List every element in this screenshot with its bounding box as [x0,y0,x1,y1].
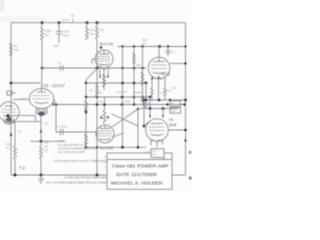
junction dot (86,147.3) [85,146,88,149]
svg-text:1/2 - 12AU7: 1/2 - 12AU7 [43,83,66,88]
svg-text:1W: 1W [99,100,103,104]
svg-text:MICHAEL S. HOLDEN: MICHAEL S. HOLDEN [111,180,163,186]
V5 pin arrows [151,75,160,79]
svg-text:T-2: T-2 [19,166,26,171]
junction dot on B+ rail x=87 [86,21,89,24]
B+ rail (top frame edge) [11,22,186,24]
svg-text:10K: 10K [98,91,103,95]
V4 internal annotations [97,127,110,142]
V6 grid diagonal [144,121,150,126]
annotation C15 C16 [145,151,150,158]
junction dot (122.5,83) [121,82,124,85]
junction dot (122,97) [121,96,124,99]
svg-text:47K: 47K [44,122,49,126]
triode V2 envelope (1/2 12AU7) [29,89,53,109]
value label 40K 1W near screen rail [142,38,147,46]
svg-text:12AU7: 12AU7 [19,98,27,101]
svg-text:0.1 400V: 0.1 400V [56,125,67,129]
junction dot (134,68) [133,67,136,70]
ground symbol below rail [38,175,44,183]
pentode V1 envelope (6AU6 first stage) [92,50,113,68]
svg-text:0.1S: 0.1S [171,86,177,90]
wire x=138 [137,109,139,147]
grid wire from input node y=83 [11,82,40,84]
screen supply wire y=46.5 [118,46,186,48]
resistor R12 (x=97, y 84-96) [96,84,99,96]
svg-text:1.5K: 1.5K [116,91,122,95]
svg-text:CLASS AB1 PP 6V6 AMPLIFIER: CLASS AB1 PP 6V6 AMPLIFIER [65,175,107,179]
svg-text:22K: 22K [136,63,141,67]
junction dot (134,46.5) [133,45,135,47]
value labels under V5 [139,89,172,95]
junction dot (150,108.5) [149,107,152,110]
junction dot (11,83) [10,82,13,85]
svg-text:0.1: 0.1 [124,90,128,94]
V2 base cup [36,107,48,116]
bus wire y=104.5 [56,104,185,106]
junction dot on B+ rail x=59 [58,21,61,24]
junction dot (168,46.5) [167,45,169,47]
svg-text:OUT: OUT [171,109,177,113]
junction dot (185.5,140.5) [184,139,186,141]
output tube V5 envelope (6V6 upper) [148,47,170,79]
capacitor C2 (x=168 bypass) [166,47,176,57]
junction dot (138,109) [137,108,139,110]
junction dot (159.5,46.5) [158,45,161,48]
junction dot (184.5,104.5) [183,103,185,105]
resistor R5 (x=142.5) [141,72,144,85]
V6 plate wire to OPT [168,129,185,131]
pentode V4 envelope (6AU6 second) [96,125,114,143]
svg-text:470: 470 [139,91,144,95]
resistor R3 (x=97 screen dropper) [96,23,105,68]
junction dot (185.5,63.5) [184,62,186,64]
svg-text:5%: 5% [44,149,49,153]
value labels under V1 [98,91,139,95]
V6 pins [151,141,163,148]
svg-text:10K: 10K [100,28,105,32]
junction dot (122.5,147.3) [121,146,124,149]
coupling wire y=68 [42,67,146,69]
junction dot (97,147.3) [96,146,99,149]
coupling wire y=132 [56,131,96,133]
junction dot (144,126) [143,125,146,128]
junction dot (15,175) [14,174,17,177]
junction dot (56,104.5) [55,103,58,106]
junction dot (142.5,97) [141,96,144,99]
junction dot (8,115.6) [7,114,10,117]
frame right edge [185,23,187,175]
title block row labels [105,156,107,169]
resistor R4 (V1 cathode, x=104) [103,74,106,87]
junction dot (167.5,104.5) [166,103,168,105]
resistor R11 [164,88,166,100]
bus wire y=97 [86,96,150,98]
svg-text:1M: 1M [18,130,22,134]
R7 value labels [44,141,49,153]
junction dot (41,175) [40,174,43,177]
wire x=134 vertical [133,47,135,105]
frame left edge [10,23,12,175]
svg-text:2W: 2W [90,32,95,36]
V2 cathode arrow [52,102,54,105]
resistor R13 (x=134) [133,53,135,64]
junction dot (97,175) [96,174,99,177]
junction dot (42,68) [41,67,44,70]
scanner smudge top-left [0,0,4,11]
wire x=122.5 down [122,105,124,148]
cathode wire y=147.3 [86,146,146,148]
V1 internal pin stubs [100,52,108,67]
ground rail (bottom frame edge) [11,174,186,176]
junction dot (97,97) [96,96,99,99]
wire x=146 [145,100,147,109]
stray mark right edge upper [189,151,191,154]
svg-text:10K: 10K [6,142,11,146]
junction dot (134,83) [133,82,136,85]
svg-text:ALL RESISTORS 1/2 W: ALL RESISTORS 1/2 W [58,143,87,147]
arrows into V6 [149,109,164,119]
svg-text:OF 1: OF 1 [152,154,158,157]
title block outer box [107,153,172,189]
resistor R6 (input grid, x=11) [10,43,19,56]
junction dot (138,147.3) [137,146,140,149]
svg-text:5K: 5K [90,88,93,92]
V3 plate wire to V2 grid [13,99,30,101]
svg-text:6V6: 6V6 [162,72,171,77]
svg-text:1K: 1K [147,102,150,106]
junction dot (159,100) [158,99,161,102]
V5 pins [152,78,165,101]
wire x=150 bus to grid line [149,97,151,109]
wire x=56 [55,105,57,133]
resistor R9 (x=104.5 to V4 grid) [103,97,106,123]
junction dot (122.5,46.5) [121,45,123,47]
junction dot (150,97) [149,96,151,98]
wire x=122.5 vertical [122,47,124,105]
junction dot (146,83) [145,82,148,85]
svg-text:R: R [105,156,107,159]
svg-text:UNLESS OTHERWISE NOTED: UNLESS OTHERWISE NOTED [58,146,96,150]
junction dot (122.5,68) [121,67,124,70]
V5 plate wire to OPT [170,63,186,65]
resistor R16 (x=144, grid stopper) [143,100,150,126]
svg-text:450V: 450V [63,34,70,38]
wire x=146 down to cathode bus [145,83,147,100]
junction dot (97,68) [96,67,99,70]
V6 base arcs [151,140,162,141]
triode V3 envelope (left 12AU7 half) [0,102,19,122]
junction dot (134,104.5) [133,103,135,105]
svg-text:1W: 1W [45,33,50,37]
wire x=42 down to V2 [41,40,43,68]
V4 grid arrows [100,115,109,118]
junction dot (170,100) [169,99,171,101]
title block header line [107,159,172,161]
V6 labels V5 / 6V6 [169,118,177,128]
junction dot (97,104.5) [96,103,99,106]
wire x=142.5 vertical [142,47,144,105]
svg-text:DATE 11/17/2008: DATE 11/17/2008 [117,172,157,178]
svg-text:6V6: 6V6 [169,123,177,128]
junction dot (163,108.5) [162,107,165,110]
input arrow at (11,133) [10,132,13,136]
capacitor C3 (in line y=68) [57,61,63,71]
R8 value labels [6,142,11,150]
svg-text:Class AB1 POWER AMP: Class AB1 POWER AMP [112,163,168,169]
resistor R14 (x=86 upper) [85,101,88,112]
junction dot (142.5,68) [141,67,144,70]
junction dot on B+ rail x=97 [96,21,99,24]
arrow on V2 cathode wire [40,129,43,133]
junction dot (144,100) [143,99,146,102]
node: B+ label above rail [70,14,75,23]
bias bus y=83 [86,82,146,84]
junction dot (104.5,104.5) [103,103,106,106]
resistor R1 (plate load, x=42) [41,23,52,44]
V3 output wires [13,116,41,122]
grid bus y=108.5 [140,108,178,110]
svg-text:400V: 400V [53,44,59,48]
junction dot (185.5,46.5) [184,45,186,47]
resistor R7 (x=41 tail, to ground rail) [40,141,43,175]
junction dot on B+ rail x=42 [41,21,44,24]
title block mini field box [151,149,164,158]
junction dot (142.5,46.5) [141,45,143,47]
V3 plate box [7,91,16,95]
NOTE text block [58,139,96,154]
svg-text:100K: 100K [124,100,130,104]
V5 base arcs [152,78,163,79]
resistor R10 (V5 cathode row) [151,88,153,100]
capacitor C4 (in line y=132) [56,125,67,136]
junction dot (185.5,100) [184,99,187,102]
capacitor C1 (x=59, from B+ rail) [53,23,70,48]
junction dot (122,104.5) [121,103,124,106]
pentode V1 pins [99,68,110,90]
V4 crossing wires to x=138 [112,109,138,137]
output tube V6 envelope (6V6 lower) [146,119,169,142]
left bus x=97 down to ground rail [96,68,98,175]
svg-text:V5: V5 [169,118,173,122]
junction dot (185.5,130) [184,129,187,132]
junction dot (146,100) [145,99,148,102]
bias wire y=141.3 [30,140,64,142]
svg-text:ALL CAPS IN uF 400V: ALL CAPS IN uF 400V [58,150,85,154]
title block right divider [163,153,165,160]
resistor R2 (x=87) [86,23,95,40]
V3 base cup [4,117,14,124]
svg-text:.5W: .5W [14,48,19,52]
svg-text:6AU6: 6AU6 [100,146,114,151]
svg-text:+B: +B [70,14,75,18]
V2 pins [40,116,42,141]
svg-text:NOTE :: NOTE : [58,139,67,143]
svg-text:220: 220 [167,89,172,93]
resistor R15 (x=86 lower) [85,134,88,145]
svg-text:8Ω: 8Ω [171,102,174,106]
junction dot (134,97) [133,96,136,99]
svg-text:1W: 1W [6,146,10,150]
svg-text:SHT 1: SHT 1 [152,150,159,153]
junction dot (101,47.5) [100,46,102,48]
svg-text:.01: .01 [57,61,61,65]
junction dot (86,97) [85,96,87,98]
wire x=86 [86,69,97,148]
stray mark right edge lower [189,177,192,180]
svg-text:0.1: 0.1 [171,50,175,54]
junction dot (86,83) [85,82,87,84]
svg-text:1K: 1K [160,91,163,95]
svg-text:6AU6: 6AU6 [100,42,114,47]
svg-text:1W: 1W [142,42,147,46]
svg-text:(22uF): (22uF) [62,19,69,22]
junction dot (86,112) [85,111,88,114]
V2 plate wire to bus [54,99,56,105]
cathode bus y=100 [140,99,186,101]
junction dot (41,141.3) [40,140,43,143]
resistor R8 (x=15, to ground rail) [14,122,17,175]
terminal box (speaker) [170,101,181,113]
